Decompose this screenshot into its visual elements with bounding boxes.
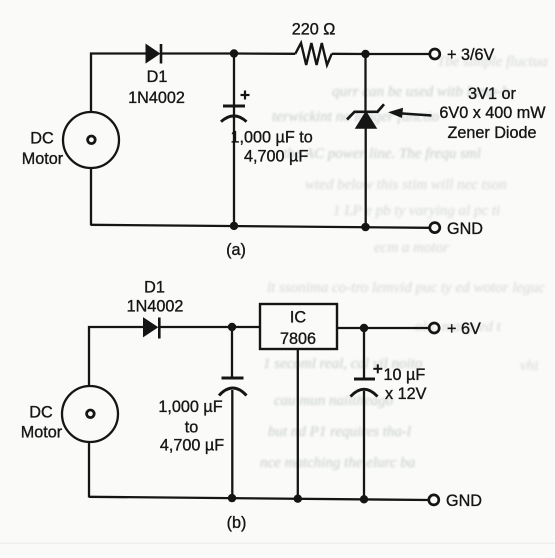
svg-text:DC: DC [30,130,54,148]
junction: capacitor C2 on ground rail (b) [228,494,236,502]
wire: node A to resistor R1 left lead (a) [234,52,295,55]
wire: diode D1 cathode to node A (a) [161,52,234,54]
IC U1 7806 regulator box [260,304,337,349]
svg-text:(a): (a) [226,241,246,259]
svg-text:+ 6V: + 6V [447,320,481,338]
junction node D (b), output cap top [360,324,368,332]
svg-text:the AC power line. The frequ s: the AC power line. The frequ sml [283,146,481,162]
wire: node D down to capacitor C3 top plate (b) [363,328,365,379]
svg-text:7806: 7806 [280,330,316,348]
junction node A (a), filter cap top [230,49,238,57]
label IC 7806 [280,309,316,349]
wire: IC 7806 output pin to node D (b) [337,327,364,329]
wire: ground rail (b) [89,497,429,500]
svg-text:(b): (b) [227,514,247,532]
svg-text:wted below this stim will nec: wted below this stim will nec tson [305,177,507,193]
wire: capacitor C3 bottom to ground rail (b) [363,391,365,500]
svg-text:nce matching the elurc ba: nce matching the elurc ba [260,455,415,471]
svg-text:lt ssonima co-tro lemvid puc t: lt ssonima co-tro lemvid puc ty ed wotor… [267,280,545,296]
svg-text:but nd P1 requires tha-l: but nd P1 requires tha-l [268,424,411,440]
zener diode Z1 [347,104,384,128]
junction node C (b), input cap top [228,323,236,331]
wire: node A down to capacitor C1 top plate (a) [233,54,235,119]
terminal GND (a) [430,223,440,233]
motor M1 (b) [62,386,118,442]
label DC Motor (b) [21,404,63,442]
label 1,000 uF to 4,700 uF (b) [158,398,224,454]
svg-text:ecm a motor: ecm a motor [374,240,449,256]
wire: motor M1 positive terminal up and right to diode D1 anode (a) [91,54,147,113]
svg-text:IC: IC [290,309,306,327]
svg-text:6V0 x 400 mW: 6V0 x 400 mW [439,104,546,122]
wire: node D to +6V terminal (b) [364,327,429,329]
terminal +6V (b) [429,323,439,333]
wire: motor M2 positive terminal up and right to diode D2 anode (b) [89,327,144,386]
label 3V1 or 6V0 x 400 mW Zener Diode [439,85,546,142]
svg-text:to: to [185,418,199,436]
svg-text:4,700 µF: 4,700 µF [244,148,308,166]
svg-text:x 12V: x 12V [385,385,427,403]
svg-text:1 LP e pb ty varying al pc ti: 1 LP e pb ty varying al pc ti [333,203,500,219]
label DC Motor (a) [22,130,64,169]
capacitor C3 polarity plus sign (b) [373,364,382,373]
terminal +3/6V (a) [430,49,440,59]
motor M1 (a) [63,112,119,168]
junction node B (a), zener top [361,50,369,58]
wire: resistor R1 right lead to node B (a) [332,53,366,56]
svg-text:10 µF: 10 µF [384,366,426,384]
svg-text:GND: GND [446,492,482,510]
svg-text:Motor: Motor [21,424,63,442]
wire: diode D1 cathode to node C (b) [159,326,232,328]
capacitor C1 (a), polarized [221,106,247,122]
svg-text:GND: GND [447,220,483,238]
wire: motor M1 negative terminal down to ground rail (b) [88,442,90,498]
wire: capacitor C1 bottom to ground rail (a) [233,116,235,226]
svg-text:DC: DC [29,404,53,422]
svg-text:3V1 or: 3V1 or [468,85,516,103]
wire: node B to +3/6V terminal (a) [366,53,430,55]
svg-text:Zener Diode: Zener Diode [447,124,536,142]
diode D1 (a) [146,44,161,64]
svg-text:vhi: vhi [520,358,538,374]
svg-text:1,000 µF to: 1,000 µF to [231,129,313,147]
junction: capacitor C3 on ground rail (b) [360,495,368,503]
capacitor C1 polarity plus sign (a) [241,91,250,100]
wire: IC 7806 ground pin down to ground rail (b) [297,349,299,499]
svg-text:D1: D1 [144,279,165,297]
junction: zener Z1 on ground rail (a) [361,223,370,232]
svg-text:1,000 µF: 1,000 µF [158,398,222,416]
wire: node B down to zener Z1 cathode (a) [364,54,366,112]
svg-text:1N4002: 1N4002 [128,89,185,107]
svg-text:1N4002: 1N4002 [127,298,184,316]
capacitor C3 (b), polarized 10 uF [351,379,378,397]
wire: zener Z1 anode to ground rail (a) [365,127,367,227]
svg-text:220 Ω: 220 Ω [292,21,336,39]
wire: node C down to capacitor C2 top plate (b) [231,327,233,378]
wire: node C to IC 7806 input pin (b) [232,326,260,328]
label 1,000 uF to 4,700 uF (a) [231,129,313,166]
wire: motor M1 negative terminal down to ground rail (a) [90,168,92,226]
svg-text:Motor: Motor [22,150,64,168]
wire: ground rail (a) [91,225,429,228]
wire: capacitor C2 bottom to ground rail (b) [231,390,233,498]
resistor R1 220 ohm [295,43,331,65]
arrow pointing to zener Z1 [388,108,432,118]
svg-text:+ 3/6V: + 3/6V [447,46,494,64]
svg-text:D1: D1 [147,68,168,86]
junction: IC ground pin on ground rail (b) [294,495,302,503]
capacitor C2 (b), polarized 1,000-4,700 uF [219,378,247,396]
diode D1 (b) [144,318,160,339]
junction: capacitor C1 on ground rail (a) [230,222,238,230]
svg-text:4,700 µF: 4,700 µF [160,436,224,454]
label 10 uF x 12V [384,366,427,403]
terminal GND (b) [429,495,439,505]
